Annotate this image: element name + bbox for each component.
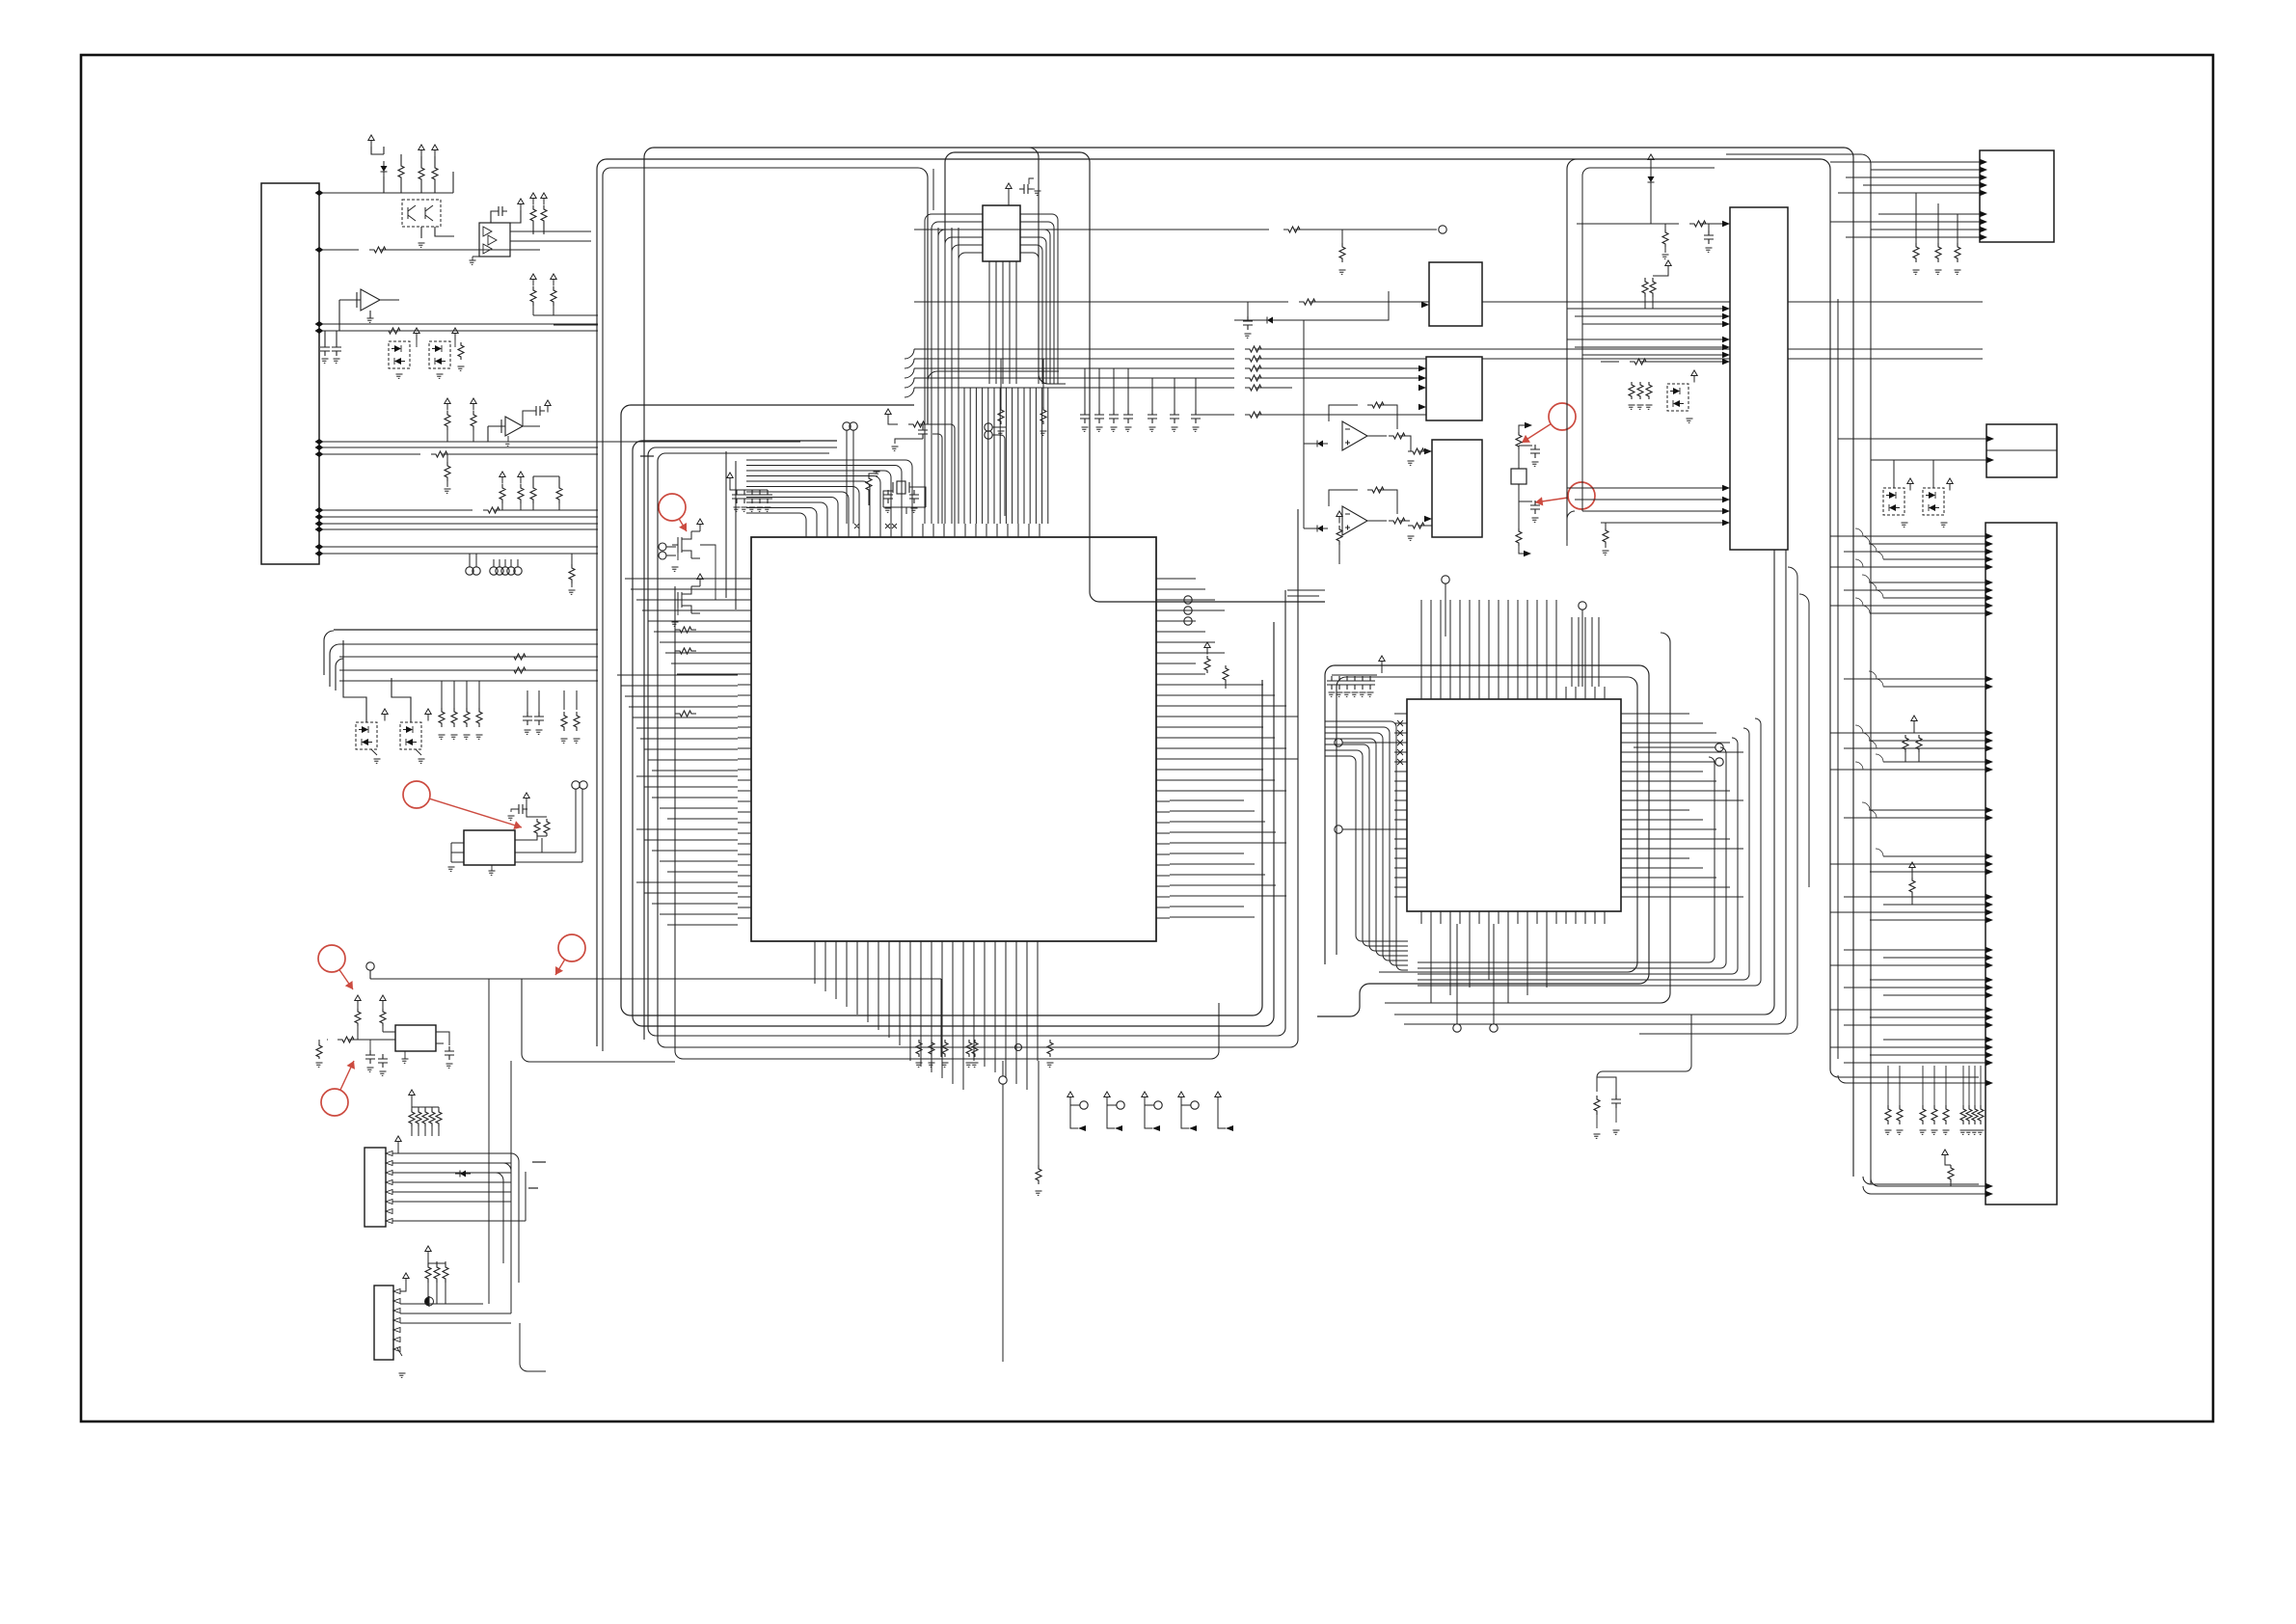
pin CN1 @y574 <box>315 551 324 556</box>
wire CN3 riser <box>488 979 490 1304</box>
wire U10 low a <box>1567 487 1722 489</box>
pin blockB y402 <box>1418 385 1426 391</box>
oscillator X1 <box>395 1025 436 1051</box>
resistor R_cb7 <box>1036 1165 1041 1184</box>
resistor R_g4d <box>556 484 562 503</box>
resistor R_cn31 <box>434 1263 440 1283</box>
wire <box>1597 1077 1616 1096</box>
wire <box>1933 1066 1935 1105</box>
ground G2 <box>334 359 340 363</box>
resistor R_cn63 <box>1931 1105 1937 1124</box>
callout 6 <box>558 934 585 961</box>
callout 4 <box>403 781 430 808</box>
pin CN3 y1389 <box>393 1338 400 1342</box>
photocoupler PC3 <box>356 722 377 749</box>
power arrow P12 <box>382 709 388 721</box>
pin blockA <box>1421 302 1429 308</box>
pin CN6 y580 <box>1985 556 1993 562</box>
wire CN1-3 <box>323 323 598 325</box>
pin CN6 y612 <box>1985 587 1993 593</box>
wire U10 low bend <box>1567 511 1575 546</box>
U1 right pins <box>1156 579 1170 918</box>
buffer U2 <box>479 223 510 257</box>
wire CN1-4 <box>323 330 598 332</box>
resistor R_h1 <box>1283 227 1305 232</box>
wire TP drop <box>576 789 582 862</box>
ground G44 <box>765 507 771 511</box>
wire osc in2 <box>383 1031 395 1033</box>
wire TP BL <box>369 970 371 979</box>
wire net A branch <box>522 979 675 1062</box>
pin CN4 y168 <box>1980 159 1987 165</box>
switch SW3 <box>1142 1092 1152 1128</box>
wire <box>1367 520 1387 522</box>
wire <box>571 554 573 587</box>
wire <box>1519 501 1532 502</box>
resistor R6 <box>1516 528 1522 546</box>
ground G38 <box>911 508 918 512</box>
wire CN3 riser3 <box>520 1323 546 1371</box>
wire <box>895 439 923 444</box>
wire R_x2 out <box>919 424 955 524</box>
U9 bottom pins <box>1421 911 1605 924</box>
TP left 518 <box>496 567 503 575</box>
block C <box>1432 440 1482 537</box>
diode D_oa1 <box>1317 441 1323 447</box>
ground G67 <box>1913 270 1920 274</box>
pin CN3 y1399 <box>393 1347 400 1352</box>
wire <box>1601 361 1722 363</box>
pin CN6 y1102 <box>1985 1060 1993 1066</box>
wire <box>538 690 540 712</box>
net H1 <box>914 229 1269 230</box>
wire <box>517 559 519 567</box>
wire CN1-13 <box>323 553 598 555</box>
wire <box>1127 368 1129 410</box>
U9 right nested <box>1418 718 1761 986</box>
resistor R_cn30 <box>425 1263 431 1283</box>
wire D1 link <box>384 147 453 193</box>
pin CN6 y1086 <box>1985 1044 1993 1050</box>
capacitor C_tl2 <box>320 342 330 356</box>
pin CN6 y954 <box>1985 917 1993 923</box>
power arrow P19 <box>395 1136 401 1149</box>
power arrow P14 <box>697 519 703 531</box>
wire <box>558 503 560 510</box>
wire <box>666 547 676 555</box>
callout 1 <box>1549 403 1576 430</box>
wire <box>424 1107 426 1136</box>
resistor R_rs1 <box>1040 407 1046 424</box>
spine B <box>603 168 928 1051</box>
pin CN1 @y549 <box>315 527 324 532</box>
pin CN6 y1123 <box>1985 1080 1993 1086</box>
pin CN6 y848 <box>1985 815 1993 821</box>
wire bottom drop <box>1038 1061 1040 1165</box>
wire chain2 <box>1518 446 1520 449</box>
wire <box>576 690 578 710</box>
pin CN6 y1024 <box>1985 985 1993 990</box>
resistor R_r2 <box>1204 656 1210 673</box>
U1 top fan right <box>932 228 959 524</box>
pin CN6 y1094 <box>1985 1052 1993 1058</box>
pin CN1 @y536 <box>315 514 324 520</box>
power arrow P5 <box>530 274 536 286</box>
wire <box>473 257 479 260</box>
op-amp U8 <box>1342 506 1367 535</box>
right bus ends <box>1830 1069 1979 1077</box>
wire U10 g320 <box>1567 308 1722 310</box>
resistor R_cn60 <box>1885 1105 1891 1124</box>
pin U10 y352 <box>1722 337 1730 342</box>
wire CN6 1047 <box>1830 1009 1985 1011</box>
wire <box>431 1107 433 1136</box>
pin CN1 @y567 <box>315 544 324 550</box>
page border <box>81 55 2213 1421</box>
wire <box>473 430 474 442</box>
wire <box>553 306 554 315</box>
resistor R5 <box>432 164 438 183</box>
capacitor C_u6 <box>1019 184 1033 194</box>
wire <box>1899 1066 1901 1105</box>
ground G78 <box>1941 523 1948 527</box>
bus wire <box>339 680 598 682</box>
wire <box>1367 435 1387 437</box>
wire buf out2 <box>510 240 591 242</box>
resistor R_u10a <box>1662 230 1668 247</box>
pin CN4 y192 <box>1980 182 1987 188</box>
pin CN3 y1359 <box>393 1309 400 1313</box>
pin CN1 @y343 <box>315 328 324 334</box>
ground G46 <box>1339 270 1346 274</box>
U1 bottom pins <box>815 941 1038 955</box>
wire CN6 790 <box>1883 761 1985 763</box>
pin CN6 y930 <box>1985 894 1993 900</box>
ground G57 <box>1408 461 1415 465</box>
resistor R_u10c <box>1630 359 1651 365</box>
ground G58 <box>1408 536 1415 540</box>
ground G22 <box>489 871 496 875</box>
ground G47 <box>1245 334 1252 338</box>
resistor R_u5b <box>544 819 550 836</box>
oa1 fb <box>1329 405 1358 421</box>
wire rr0 <box>914 348 1234 350</box>
wire chain <box>1519 425 1526 432</box>
resistor R_rr5 <box>1245 412 1266 418</box>
wire rr2 out <box>1256 367 1426 369</box>
wire CA1 <box>730 484 768 490</box>
wire <box>436 1261 438 1304</box>
resistor R_ch2 <box>1518 497 1520 499</box>
pin CN1 @y464 <box>315 445 324 450</box>
buffer U4 <box>501 417 523 436</box>
wire U5 out <box>515 836 542 853</box>
wire <box>450 843 452 862</box>
wire <box>501 503 503 510</box>
U1 right fan2 <box>1170 685 1298 791</box>
bus wire <box>339 669 598 671</box>
wire R_tl5 d <box>543 225 545 234</box>
wire CN6 1078 <box>1883 1039 1985 1041</box>
TP left 524 <box>501 567 509 575</box>
TP left 487 <box>466 567 473 575</box>
resistor R_cn61 <box>1897 1105 1903 1124</box>
resistor R_cn32 <box>443 1263 448 1283</box>
diode D1 <box>381 166 388 172</box>
wire CN1-6 <box>323 447 598 448</box>
TP X a <box>843 422 851 430</box>
wire CN1-5 <box>323 441 800 443</box>
resistor R_rr3 <box>1245 375 1266 381</box>
wire rr1 out <box>1256 358 1983 360</box>
wire bottom drop2 <box>1002 1084 1004 1362</box>
resistor R_lm2 <box>509 667 530 673</box>
pin U10 y328 <box>1722 313 1730 319</box>
wire <box>1445 583 1446 636</box>
wire C_x3 out <box>932 434 942 524</box>
U1 left pins <box>738 579 751 918</box>
power arrow P28 <box>1379 656 1385 668</box>
ground G55 <box>1172 427 1178 431</box>
wire <box>1042 359 1044 407</box>
wire <box>1913 727 1915 733</box>
ground G42 <box>749 507 756 511</box>
power arrow P36 <box>1909 862 1915 875</box>
wire Q2Q3 <box>700 545 716 600</box>
ground R_x1 <box>874 472 880 475</box>
pin CN1 @y259 <box>315 247 324 253</box>
resistor R_cb3 <box>966 1040 972 1057</box>
wire CN6 1032 <box>1883 994 1985 996</box>
wire CN1-10 <box>323 523 598 525</box>
power arrow P4 <box>452 328 458 340</box>
wire <box>493 559 495 567</box>
ground G12 <box>476 735 483 739</box>
wire RA_U9 top <box>1332 674 1377 676</box>
resistor R_lmc3 <box>476 708 482 727</box>
resistor R_lmc2 <box>464 708 470 727</box>
wire <box>1151 378 1153 410</box>
ground G18 <box>419 759 425 763</box>
resistor R_cb0 <box>916 1040 922 1057</box>
wire <box>1000 359 1002 407</box>
wire CN6 572 <box>1844 551 1985 553</box>
capacitor C_u5 <box>514 804 527 814</box>
IC U9 (co-processor) <box>1407 699 1621 911</box>
wire oa2 in <box>1303 444 1305 528</box>
wire C_tl1 link <box>491 211 494 223</box>
resistor R_cn6z <box>1916 735 1922 752</box>
power arrow P2 <box>541 193 547 205</box>
ground G24 <box>316 1063 323 1067</box>
resistor R_ch1 <box>1516 432 1522 449</box>
wire <box>1195 378 1197 410</box>
TP U9 right <box>1715 744 1723 751</box>
capacitor C_lm1 <box>534 712 544 725</box>
ground G83 <box>1943 1130 1950 1134</box>
wire <box>1937 203 1939 243</box>
callout 7 <box>321 1089 348 1116</box>
wire rr5 <box>1196 414 1426 416</box>
capacitor C_tail <box>1611 1095 1621 1108</box>
wire <box>1225 683 1227 689</box>
resistor R1 <box>369 247 391 253</box>
resistor R_cn66 <box>1966 1105 1972 1124</box>
pin CN4 y184 <box>1980 175 1987 180</box>
ground G59 <box>1532 462 1539 466</box>
power arrow P3 <box>414 328 419 340</box>
ground G40 <box>734 507 741 511</box>
op-amp U7 <box>1342 421 1367 450</box>
wire CN6 1016 <box>1870 979 1985 981</box>
ground G53 <box>1125 427 1132 431</box>
wire buf out3 <box>510 249 540 251</box>
wire CN1-2b <box>380 249 540 251</box>
wire oa2 fb <box>1378 405 1397 429</box>
wire CN6 985 <box>1844 949 1985 951</box>
ground G17 <box>374 759 381 763</box>
resistor R_oa3 <box>1408 448 1429 454</box>
transistor Q3 <box>672 586 700 613</box>
resistor R_lm1 <box>509 654 530 660</box>
resistor R_tl5 <box>541 205 547 225</box>
wire CN6 888 <box>1883 855 1985 857</box>
power arrow P33 <box>1947 478 1953 491</box>
CN6 bend group <box>1855 528 1883 856</box>
connector CN5 <box>1986 424 2057 477</box>
pin CN2 y1216 <box>386 1171 392 1176</box>
wire CN2 bend3 <box>496 1173 503 1263</box>
pin CN4 y230 <box>1980 219 1987 225</box>
pin CN4 y222 <box>1980 211 1987 217</box>
wire <box>1653 272 1668 276</box>
wire <box>1519 445 1532 447</box>
resistor R_g3a <box>445 411 450 430</box>
wire <box>1893 460 1895 488</box>
pin CN6 y1055 <box>1985 1015 1993 1020</box>
ground G41 <box>742 507 748 511</box>
capacitor C_rs0 <box>1080 410 1090 423</box>
pin CN6 y1001 <box>1985 962 1993 968</box>
wire <box>1887 1066 1889 1105</box>
pin CN2 y1196 <box>386 1151 392 1156</box>
capacitor C_rt1 <box>1170 410 1179 423</box>
ground G33 <box>966 1063 973 1067</box>
resistor R_rr4 <box>1245 385 1266 391</box>
power arrow P21 <box>403 1273 409 1286</box>
resistor R_rr0 <box>1245 346 1266 352</box>
wire CN1-2 <box>323 249 359 251</box>
resistor R3 <box>483 507 504 513</box>
U9 outer5 <box>1799 594 1809 887</box>
U9 top bundle right <box>1572 617 1599 687</box>
wire CN6 848 <box>1844 817 1985 819</box>
callout 3 <box>659 494 686 521</box>
wire <box>411 1107 413 1136</box>
IC U5 <box>464 830 515 865</box>
capacitor C_ch1 <box>1530 445 1540 458</box>
wire <box>446 430 448 442</box>
ground G73 <box>1637 405 1644 409</box>
pin CN6 y888 <box>1985 853 1993 859</box>
wire U4 drop <box>487 426 489 442</box>
TP U9 top <box>1442 576 1449 583</box>
wire <box>1945 1161 1951 1165</box>
wire <box>1304 443 1312 445</box>
wire <box>691 530 700 537</box>
wire <box>532 503 534 510</box>
ground G13 <box>525 730 531 734</box>
wire Q1 down <box>420 227 422 238</box>
wire g2 <box>322 330 324 332</box>
ground G28 <box>402 1059 409 1063</box>
power arrow P30 <box>1665 260 1671 273</box>
photocoupler PC2 <box>429 341 450 368</box>
resistor R_cn22 <box>422 1109 428 1126</box>
connector CN6 <box>1985 523 2057 1204</box>
loop L4 <box>658 453 1298 1047</box>
TP loop bottom <box>1015 1044 1022 1051</box>
diode D_oa2 <box>1317 526 1323 532</box>
TP U9 left2 <box>1335 826 1342 833</box>
wire <box>677 551 679 560</box>
wire <box>922 424 924 425</box>
IC U1 (main processor) <box>751 537 1156 941</box>
power arrow P25 <box>885 409 891 421</box>
wire <box>454 339 456 347</box>
ground G61 <box>1329 692 1336 696</box>
resistor R_h2 <box>1339 243 1345 262</box>
pin U10 y368 <box>1722 352 1730 358</box>
ground G37 <box>885 508 892 512</box>
wire <box>510 559 512 567</box>
capacitor C_tl3 <box>332 342 341 356</box>
resistor R_oa1 <box>1389 433 1410 439</box>
wire CN6 mid <box>1838 1075 1985 1083</box>
resistor R_cn41 <box>1935 243 1941 262</box>
capacitor C_rt2 <box>1191 410 1201 423</box>
capacitor C8 <box>1342 676 1352 690</box>
wire <box>491 865 493 871</box>
ground G35 <box>1047 1063 1054 1067</box>
pin CN6 y1016 <box>1985 977 1993 983</box>
ground G15 <box>561 739 568 743</box>
pin CN1 @y336 <box>315 321 324 327</box>
pin CN1 @y200 <box>315 190 324 196</box>
ground G54 <box>1149 427 1156 431</box>
capacitor C_rs2 <box>1109 410 1119 423</box>
U9 bottom bundle <box>1431 924 1547 1003</box>
resistor R_cn21 <box>416 1109 421 1126</box>
pin CN4 y238 <box>1980 227 1987 232</box>
wire osc in <box>358 1039 395 1041</box>
resistor R_c1 <box>675 627 696 633</box>
ground Q1 <box>419 243 425 247</box>
pin CN1 @y543 <box>315 521 324 527</box>
wire R_tl9 out <box>554 324 598 326</box>
power arrow P35 <box>1911 716 1917 728</box>
U9 top bundle <box>1421 600 1556 687</box>
pin CN2 y1246 <box>386 1200 392 1204</box>
rr bundle bend <box>905 349 914 397</box>
capacitor C_rs1 <box>1094 410 1104 423</box>
power arrow P20 <box>409 1090 415 1102</box>
ground G51 <box>1096 427 1103 431</box>
U6 down bundle fine <box>964 388 1048 524</box>
wire <box>441 681 443 708</box>
loop L5 <box>675 586 1219 1059</box>
capacitor C_bl3 <box>445 1046 454 1060</box>
